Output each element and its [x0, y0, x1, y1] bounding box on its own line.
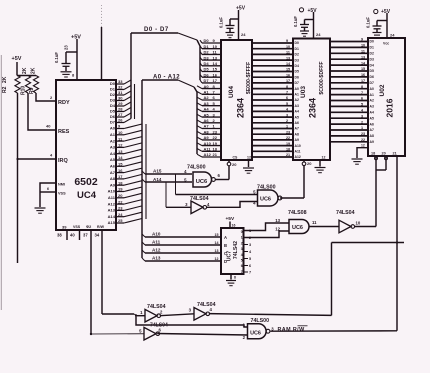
svg-text:6: 6 [249, 264, 251, 268]
svg-text:29: 29 [118, 101, 123, 106]
svg-text:D7: D7 [110, 120, 116, 125]
svg-text:74LS08: 74LS08 [288, 210, 307, 216]
wire A14 branch to inverter input [166, 182, 191, 207]
svg-text:22: 22 [118, 199, 123, 204]
svg-text:2K: 2K [22, 67, 28, 74]
svg-text:74LS04: 74LS04 [147, 304, 166, 310]
wire address bus trunk second stroke [145, 124, 147, 219]
svg-text:A6: A6 [295, 121, 299, 125]
svg-text:24: 24 [390, 33, 395, 38]
svg-text:UC6: UC6 [250, 330, 261, 336]
ground at ROM U3 pin 12 [315, 168, 326, 173]
svg-text:25: 25 [118, 218, 123, 223]
svg-text:U03: U03 [300, 86, 307, 98]
svg-text:D2: D2 [370, 52, 374, 56]
svg-text:19: 19 [213, 141, 218, 146]
svg-text:D3: D3 [110, 98, 116, 103]
decoder output stubs [241, 229, 252, 275]
svg-text:D2: D2 [110, 92, 116, 97]
svg-text:4: 4 [50, 153, 53, 158]
svg-text:18: 18 [118, 180, 123, 185]
ground at RAM U2 capacitor [373, 33, 382, 38]
wire inverter out to NAND2 pin 4 [206, 202, 257, 208]
svg-text:UC4: UC4 [77, 190, 97, 201]
svg-text:D1: D1 [204, 44, 210, 49]
svg-text:D6: D6 [110, 114, 116, 119]
svg-text:19: 19 [118, 187, 123, 192]
svg-text:A6: A6 [110, 164, 116, 169]
ground at CPU NMI/VSS [35, 208, 46, 213]
svg-text:RAM R/W: RAM R/W [278, 327, 306, 333]
svg-text:11: 11 [312, 220, 317, 225]
svg-text:2K: 2K [31, 67, 37, 74]
svg-text:B: B [224, 243, 227, 248]
svg-text:A14: A14 [108, 214, 116, 219]
svg-text:5: 5 [249, 257, 251, 261]
svg-text:23: 23 [286, 130, 290, 134]
svg-text:14: 14 [118, 155, 123, 160]
AND gate UC6 74LS08 [275, 210, 317, 234]
wire RAM U2 ground pin to ground [357, 144, 368, 159]
svg-text:A2: A2 [370, 99, 374, 103]
wire NAND output to RAM WE [271, 330, 398, 332]
svg-text:D0: D0 [110, 81, 116, 86]
svg-text:12: 12 [322, 155, 326, 159]
IC U2 2016 RAM body [368, 38, 405, 156]
svg-text:12: 12 [275, 227, 280, 232]
svg-text:D0: D0 [204, 38, 210, 43]
svg-text:12: 12 [247, 155, 251, 159]
svg-text:74LS04: 74LS04 [197, 302, 216, 308]
svg-text:D0 - D7: D0 - D7 [144, 27, 169, 33]
inverter 74LS04 to RAM select [336, 210, 361, 233]
svg-text:5: 5 [253, 190, 256, 195]
wire A11 to decoder [142, 240, 221, 246]
svg-text:0.1uF: 0.1uF [293, 16, 298, 27]
svg-text:1: 1 [241, 236, 243, 240]
scan edge artifact left [0, 55, 2, 310]
svg-text:A0 - A12: A0 - A12 [153, 75, 180, 81]
svg-text:A8: A8 [370, 134, 374, 138]
RAM U2 +5V pin 24 [374, 9, 396, 38]
svg-text:14: 14 [215, 241, 219, 245]
svg-text:15: 15 [213, 67, 218, 72]
svg-text:A7: A7 [110, 170, 116, 175]
svg-text:A12: A12 [108, 201, 116, 206]
ground at RAM U2 ground pin [352, 159, 363, 164]
svg-text:A0: A0 [370, 87, 374, 91]
svg-text:24: 24 [118, 212, 123, 217]
decoder +5V pin 16 [226, 216, 236, 228]
inverter 74LS04 R/W [139, 323, 168, 341]
svg-text:23: 23 [361, 132, 365, 136]
svg-text:D1: D1 [110, 87, 116, 92]
svg-text:A11: A11 [295, 150, 301, 154]
svg-text:RES: RES [58, 129, 70, 135]
svg-text:12: 12 [361, 144, 365, 148]
svg-text:3: 3 [286, 113, 288, 117]
svg-text:D5: D5 [110, 109, 116, 114]
svg-text:10: 10 [286, 45, 290, 49]
svg-text:5: 5 [139, 329, 142, 334]
svg-text:D7: D7 [204, 78, 210, 83]
svg-text:UC6: UC6 [292, 225, 303, 231]
svg-text:10: 10 [361, 44, 365, 48]
svg-text:A11: A11 [108, 195, 116, 200]
svg-text:A9: A9 [110, 182, 116, 187]
svg-text:A3: A3 [204, 101, 210, 106]
svg-text:+5V: +5V [12, 56, 22, 62]
svg-text:18: 18 [371, 152, 375, 156]
svg-text:A2: A2 [295, 98, 299, 102]
svg-text:A3: A3 [295, 104, 299, 108]
capacitor 0.1uF at ROM U3 [293, 16, 314, 31]
svg-text:D2: D2 [295, 53, 299, 57]
svg-text:74LS00: 74LS00 [187, 165, 206, 171]
svg-text:A15: A15 [108, 220, 116, 225]
svg-text:16: 16 [118, 168, 123, 173]
wire decoder output 2 to AND gate pin 12 [244, 231, 290, 238]
svg-text:D6: D6 [295, 75, 299, 79]
svg-text:Vcc: Vcc [383, 42, 389, 46]
svg-text:13: 13 [361, 55, 365, 59]
svg-text:20: 20 [118, 193, 123, 198]
wire A15 branch to NAND2 pin 5 [176, 174, 258, 195]
svg-text:A4: A4 [204, 107, 210, 112]
svg-text:22: 22 [361, 138, 365, 142]
svg-text:6: 6 [218, 173, 221, 178]
wire phi2 branch to NAND pin 1 [136, 315, 247, 327]
wire data bus trunk second stroke [134, 84, 136, 119]
svg-text:12: 12 [215, 257, 219, 261]
wire A15 tap to NAND UC6 pin 4 [142, 169, 192, 175]
svg-text:3: 3 [249, 243, 251, 247]
CPU NMI and VSS pins tied to ground [40, 183, 66, 208]
svg-text:3: 3 [361, 114, 363, 118]
ROM U3 ground pin 12 [320, 155, 325, 166]
svg-text:18: 18 [213, 147, 218, 152]
svg-text:A1: A1 [295, 93, 299, 97]
svg-text:19: 19 [286, 142, 290, 146]
svg-text:IRQ: IRQ [58, 158, 69, 164]
ROM U3 +5V pin 24 [299, 8, 321, 39]
svg-text:9: 9 [361, 38, 363, 42]
svg-text:A7: A7 [370, 128, 374, 132]
svg-text:2: 2 [286, 119, 288, 123]
svg-text:A10: A10 [108, 189, 116, 194]
svg-text:8: 8 [234, 276, 236, 280]
svg-text:UC6: UC6 [196, 179, 208, 185]
wire bus between ROM U4 and ROM U3 [252, 39, 293, 157]
svg-text:UC7: UC7 [227, 251, 233, 261]
ground at CPU capacitor [61, 72, 72, 77]
svg-text:A9: A9 [295, 138, 299, 142]
svg-text:R/W: R/W [97, 225, 105, 229]
svg-text:A11: A11 [204, 147, 212, 152]
svg-text:A2: A2 [110, 138, 116, 143]
svg-text:20: 20 [232, 162, 237, 167]
svg-text:2016: 2016 [385, 98, 395, 117]
svg-text:D4: D4 [295, 64, 299, 68]
svg-text:2: 2 [361, 120, 363, 124]
svg-text:A10: A10 [152, 232, 161, 237]
ROM U4 chip select pin 20 bubble [227, 156, 238, 167]
wire clock phi0 into CPU pin 37 from top [101, 5, 103, 80]
capacitor 0.1uF at ROM U4 [219, 17, 239, 32]
RAM U2 write enable pin 21 wire down [396, 156, 398, 331]
svg-text:24: 24 [241, 32, 246, 37]
svg-text:D7: D7 [370, 81, 374, 85]
svg-text:A1: A1 [370, 93, 374, 97]
svg-text:D3: D3 [295, 58, 299, 62]
svg-text:A7: A7 [204, 124, 210, 129]
svg-text:12: 12 [118, 143, 123, 148]
svg-text:17: 17 [213, 78, 218, 83]
svg-text:2364: 2364 [308, 98, 318, 118]
svg-text:16: 16 [232, 224, 236, 228]
svg-text:A0: A0 [295, 87, 299, 91]
wire R/W from CPU down to inverter [90, 230, 144, 335]
svg-text:28: 28 [118, 107, 123, 112]
wire inverter R/W output to NAND pin 2 [157, 334, 247, 336]
svg-text:D5: D5 [370, 69, 374, 73]
svg-text:2: 2 [160, 310, 163, 315]
svg-text:33: 33 [118, 79, 123, 84]
IC UC7 74LS42 decoder body [221, 228, 244, 274]
svg-text:3: 3 [189, 308, 192, 313]
svg-text:2: 2 [50, 95, 53, 100]
wire A14 tap to NAND UC6 pin 5 [142, 177, 192, 182]
CPU +5V power pin 8 with label [71, 35, 81, 81]
svg-text:24: 24 [316, 32, 321, 37]
wire phi2 from CPU down to inverter chain [102, 230, 145, 317]
svg-text:6: 6 [361, 97, 363, 101]
svg-text:A0: A0 [110, 126, 116, 131]
svg-text:U02: U02 [379, 84, 386, 96]
svg-text:16: 16 [213, 72, 218, 77]
svg-text:1: 1 [361, 126, 363, 130]
ground at decoder [226, 281, 236, 286]
svg-text:U04: U04 [228, 86, 235, 98]
ground at ROM U4 pin 12 [243, 168, 254, 173]
svg-text:74LS00: 74LS00 [257, 185, 276, 191]
svg-text:D0: D0 [295, 41, 299, 45]
NAND gate UC6 74LS00 RAM write [243, 318, 275, 340]
svg-text:A4: A4 [110, 151, 116, 156]
ROM U4 +5V pin 24 [236, 6, 246, 41]
svg-text:13: 13 [215, 249, 219, 253]
svg-text:74LS42: 74LS42 [233, 241, 239, 259]
svg-text:C: C [224, 251, 227, 256]
svg-text:7: 7 [241, 270, 243, 274]
svg-text:D5: D5 [204, 67, 210, 72]
svg-text:0: 0 [241, 230, 243, 234]
svg-text:18: 18 [286, 148, 290, 152]
svg-text:1: 1 [286, 125, 288, 129]
svg-text:15: 15 [361, 67, 365, 71]
node +5V pull-up rail [12, 56, 37, 76]
wire bridge up and across to RAM WE line [332, 241, 405, 315]
svg-text:5: 5 [241, 259, 243, 263]
svg-text:Φ2: Φ2 [86, 225, 91, 229]
svg-text:6: 6 [241, 264, 243, 268]
svg-text:+5V: +5V [381, 9, 391, 15]
svg-text:39: 39 [62, 224, 67, 229]
resistor R10 2K [21, 67, 31, 95]
svg-text:20: 20 [307, 161, 312, 166]
wire bus between ROM U3 and RAM U2 [330, 38, 368, 142]
svg-text:D5: D5 [295, 70, 299, 74]
svg-text:38: 38 [57, 233, 62, 238]
svg-text:A5: A5 [370, 116, 374, 120]
svg-text:74LS00: 74LS00 [251, 318, 270, 324]
svg-text:3: 3 [241, 247, 243, 251]
svg-text:4: 4 [207, 202, 210, 207]
wire NAND1 output to ROM U4 chip select [215, 166, 229, 180]
svg-text:A9: A9 [370, 140, 374, 144]
RAM U2 chip select and output enable pins 18 20 tied [371, 152, 397, 171]
svg-text:CS: CS [233, 156, 239, 160]
node bus label D0 - D7 [144, 27, 169, 33]
ROM U3 interior pin labels [295, 41, 301, 159]
svg-text:8: 8 [361, 85, 363, 89]
svg-text:22: 22 [213, 135, 218, 140]
svg-text:D4: D4 [370, 63, 374, 67]
wire A12 to decoder [142, 248, 221, 254]
node RAM R/W output label [278, 326, 308, 333]
svg-text:2364: 2364 [236, 98, 246, 118]
svg-text:21: 21 [213, 152, 218, 157]
svg-text:A8: A8 [295, 132, 299, 136]
svg-text:4: 4 [249, 250, 252, 254]
svg-text:$C000-$DFFF: $C000-$DFFF [319, 61, 325, 94]
svg-text:A3: A3 [370, 105, 374, 109]
svg-text:27: 27 [118, 112, 123, 117]
svg-text:R9: R9 [29, 87, 35, 94]
wire AND output to inverter [309, 226, 339, 228]
svg-text:A12: A12 [204, 152, 212, 157]
svg-text:74LS04: 74LS04 [336, 210, 355, 216]
svg-text:14: 14 [213, 61, 218, 66]
svg-text:A4: A4 [370, 111, 374, 115]
node bus label A0 - A12 [153, 75, 180, 81]
svg-text:17: 17 [118, 174, 123, 179]
svg-text:26: 26 [118, 118, 123, 123]
svg-text:VSS: VSS [73, 225, 81, 229]
svg-text:40: 40 [46, 124, 51, 129]
svg-text:6502: 6502 [74, 176, 98, 188]
ground at ROM U4 capacitor [226, 33, 235, 38]
svg-text:D1: D1 [295, 47, 299, 51]
capacitor 0.1uF decoupling at CPU [54, 45, 77, 71]
svg-text:30: 30 [118, 96, 123, 101]
svg-text:A9: A9 [204, 135, 210, 140]
ground at ROM U3 capacitor [300, 31, 309, 36]
svg-text:32: 32 [118, 85, 123, 90]
CPU data pins D0-D7 with fan to bus [110, 79, 131, 125]
svg-text:13: 13 [213, 55, 218, 60]
wire data bus trunk D0-D7 [131, 33, 200, 119]
wire NAND2 output to ROM U3 chip select [280, 160, 312, 198]
svg-text:A13: A13 [108, 208, 116, 213]
svg-text:A8: A8 [204, 129, 210, 134]
wire between inverters [160, 314, 194, 316]
svg-text:D6: D6 [370, 75, 374, 79]
svg-text:A13: A13 [152, 256, 161, 261]
svg-text:34: 34 [95, 233, 100, 238]
svg-text:R2: R2 [2, 86, 8, 93]
svg-text:D4: D4 [110, 103, 116, 108]
svg-text:4: 4 [241, 253, 243, 257]
svg-text:+5V: +5V [226, 216, 235, 222]
svg-text:13: 13 [275, 218, 280, 223]
svg-text:D1: D1 [370, 46, 374, 50]
svg-text:D6: D6 [204, 72, 210, 77]
svg-text:21: 21 [393, 152, 397, 156]
svg-text:23: 23 [213, 129, 218, 134]
svg-text:A10: A10 [295, 144, 301, 148]
svg-text:+5V: +5V [236, 6, 246, 12]
resistor R2 2K [2, 76, 20, 94]
svg-text:A5: A5 [295, 115, 299, 119]
svg-text:$E000-$FFFF: $E000-$FFFF [246, 62, 252, 94]
svg-text:A5: A5 [204, 112, 210, 117]
svg-text:D3: D3 [370, 57, 374, 61]
svg-text:D0: D0 [370, 40, 374, 44]
svg-text:5: 5 [361, 103, 363, 107]
svg-text:D4: D4 [204, 61, 210, 66]
ROM U4 ground pin 12 [247, 155, 251, 167]
svg-text:+5V: +5V [308, 8, 318, 14]
svg-text:17: 17 [286, 79, 290, 83]
svg-text:0.1uF: 0.1uF [54, 52, 59, 63]
CPU address pins A0-A15 with fan to bus [108, 124, 142, 226]
svg-text:10: 10 [213, 44, 218, 49]
svg-text:3: 3 [185, 202, 188, 207]
inverter 74LS04 phi2 first [140, 304, 165, 322]
svg-text:6: 6 [286, 96, 288, 100]
svg-text:A0: A0 [204, 84, 210, 89]
wire R2 to IRQ pin 4 and stub down [16, 93, 56, 263]
svg-text:23: 23 [64, 45, 69, 50]
wire R9 to RDY pin 2 [36, 93, 56, 101]
svg-text:23: 23 [118, 206, 123, 211]
svg-text:13: 13 [118, 149, 123, 154]
svg-text:D: D [224, 259, 227, 264]
svg-text:A1: A1 [204, 90, 210, 95]
svg-text:21: 21 [286, 153, 290, 157]
ROM U4 left pins D0-D7 A0-A12 [197, 38, 221, 157]
svg-text:A1: A1 [110, 132, 116, 137]
svg-text:A11: A11 [152, 240, 161, 245]
svg-text:9: 9 [286, 39, 288, 43]
svg-text:RDY: RDY [58, 100, 70, 106]
inverter 74LS04 phi2 second [189, 302, 216, 320]
svg-text:13: 13 [286, 56, 290, 60]
svg-text:10: 10 [356, 221, 361, 226]
inverter 74LS04 address [185, 196, 210, 214]
svg-text:15: 15 [215, 233, 219, 237]
svg-text:7: 7 [286, 91, 288, 95]
wire address bus trunk A0-A12 [142, 80, 197, 258]
svg-text:0.1uF: 0.1uF [366, 17, 371, 28]
svg-text:A4: A4 [295, 110, 299, 114]
NAND gate U C6 74LS00 first [184, 165, 220, 188]
svg-text:20: 20 [382, 152, 386, 156]
svg-text:A6: A6 [204, 118, 210, 123]
wire A13 to decoder [142, 256, 221, 262]
svg-text:A3: A3 [110, 145, 116, 150]
